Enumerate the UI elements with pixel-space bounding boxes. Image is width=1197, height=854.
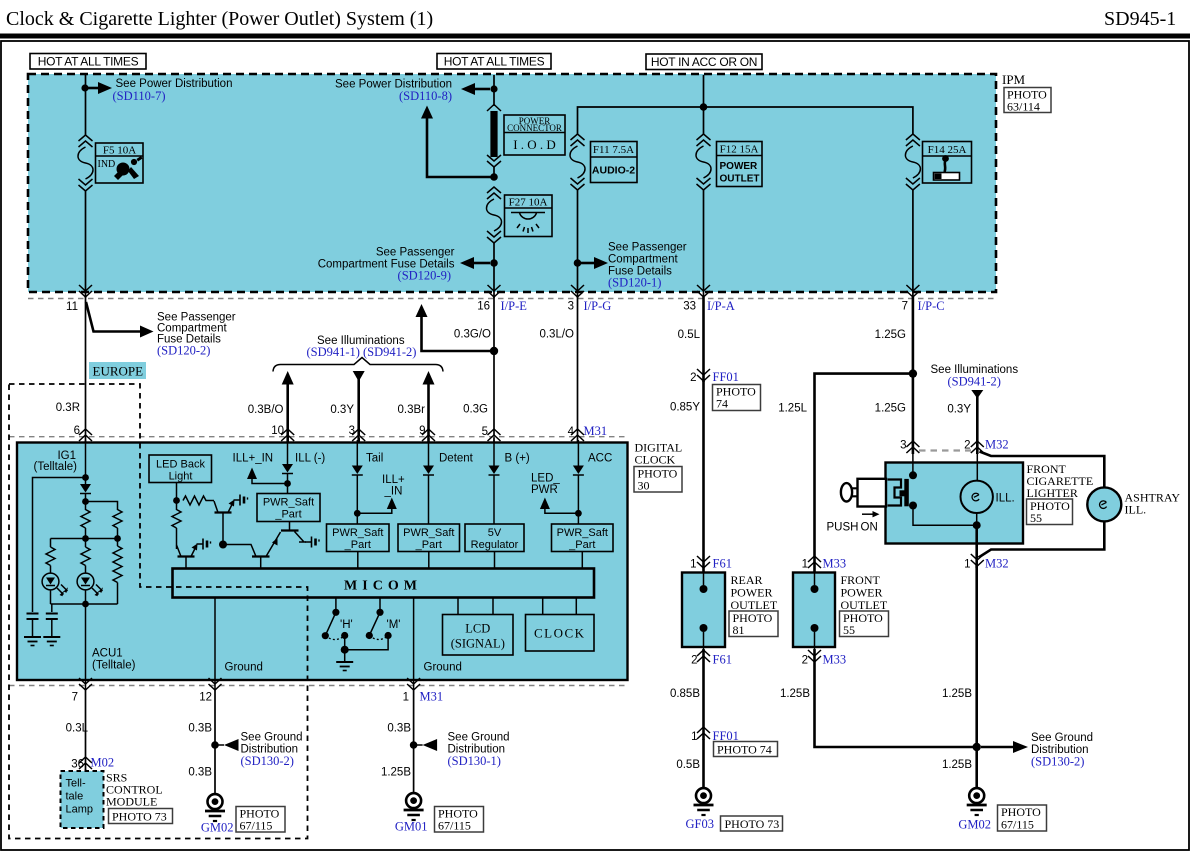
fuse F27 [487, 187, 502, 243]
node + arrow See Passenger Compartment Fuse Details (SD120-1) [574, 259, 582, 267]
node joining Q1 collector [219, 541, 227, 549]
PWR_Saft_Part box D [552, 524, 614, 552]
LED Back Light box [149, 455, 212, 483]
svg-text:(Telltale): (Telltale) [92, 660, 136, 672]
connector exit chevron pin 33 [697, 285, 710, 297]
svg-text:3: 3 [900, 440, 906, 452]
node [82, 474, 89, 481]
wire [85, 494, 87, 511]
svg-text:'M': 'M' [387, 619, 401, 631]
svg-text:1.25L: 1.25L [778, 403, 807, 415]
svg-text:Clock & Cigarette Lighter (Pow: Clock & Cigarette Lighter (Power Outlet)… [6, 8, 433, 30]
svg-text:(SD130-2): (SD130-2) [1031, 755, 1084, 769]
svg-text:_IN: _IN [384, 486, 403, 498]
capacitor key at Q1 [234, 495, 248, 506]
switch ground symbol [336, 662, 353, 671]
svg-text:67/115: 67/115 [1001, 818, 1034, 832]
node + branch up arrow LED_PWR [575, 510, 582, 517]
wire lamp to node and out of box [976, 513, 978, 525]
svg-text:0.3B: 0.3B [188, 723, 212, 735]
wire A top segment [85, 75, 87, 136]
svg-text:SD945-1: SD945-1 [1104, 8, 1176, 30]
exit chevron pin 7 [79, 678, 92, 690]
switch H [322, 598, 353, 651]
svg-text:Detent: Detent [439, 453, 474, 465]
transistor Q2 [177, 544, 198, 570]
ground symbol GM02 [967, 788, 987, 815]
svg-text:0.3L/O: 0.3L/O [539, 329, 574, 341]
svg-text:HOT AT ALL TIMES: HOT AT ALL TIMES [38, 55, 139, 69]
svg-text:_Part: _Part [415, 539, 442, 551]
fuse F14 [905, 134, 920, 190]
fuse F11 [570, 134, 585, 190]
LED left [42, 566, 68, 605]
svg-text:M02: M02 [91, 756, 115, 770]
svg-text:FF01: FF01 [713, 370, 739, 384]
node on wire B [490, 85, 497, 92]
wires into box [913, 450, 977, 481]
photo box 67/115 [236, 807, 285, 833]
svg-text:See Passenger: See Passenger [376, 247, 455, 259]
svg-text:B (+): B (+) [505, 453, 530, 465]
svg-text:74: 74 [716, 397, 728, 411]
connector exit chevron pin 11 [79, 285, 92, 297]
svg-text:LCD: LCD [465, 622, 490, 636]
svg-text:33: 33 [683, 301, 696, 313]
svg-text:0.3L: 0.3L [66, 723, 89, 735]
header label HOT AT ALL TIMES (left) [30, 54, 146, 70]
svg-text:IND: IND [98, 159, 116, 170]
svg-text:HOT AT ALL TIMES: HOT AT ALL TIMES [444, 55, 545, 69]
svg-text:M32: M32 [985, 438, 1009, 452]
photo box 81 [729, 611, 778, 637]
arrow to See Power Distribution (SD110-8) [475, 88, 490, 91]
svg-text:81: 81 [733, 623, 745, 637]
fuse F5 [78, 135, 93, 191]
cigarette icon in F14 [934, 155, 960, 180]
svg-text:0.3Br: 0.3Br [398, 404, 426, 416]
wire into telltale lamp [85, 769, 87, 772]
photo box 73 [721, 816, 783, 831]
svg-text:(SD941-2): (SD941-2) [948, 375, 1001, 389]
FRONT POWER OUTLET box [793, 568, 835, 650]
svg-text:(SD120-9): (SD120-9) [398, 269, 451, 283]
wire 0.3B [413, 690, 415, 794]
capacitor key at Q4 [305, 537, 319, 548]
arrow to See Ground Distribution (SD130-2) [981, 746, 1013, 749]
svg-text:1.25B: 1.25B [942, 688, 972, 700]
socket profile [888, 480, 902, 506]
connector chevron 2 M33 (bottom) [808, 650, 821, 662]
photo box 67/115 [998, 805, 1047, 832]
svg-text:63/114: 63/114 [1007, 100, 1040, 114]
svg-text:11: 11 [66, 301, 78, 313]
module box [17, 443, 628, 681]
photo box 55 [840, 611, 889, 637]
ground symbol GM02 [205, 794, 225, 821]
wire 0.5B [702, 739, 705, 789]
branch left with up arrow [422, 316, 495, 351]
wires to 538 junctions [86, 528, 118, 547]
svg-text:F61: F61 [713, 653, 732, 667]
vertical resistor under node [172, 510, 181, 529]
photo box 67/115 [435, 807, 484, 833]
wire 0.3B [214, 690, 216, 795]
svg-text:55: 55 [1030, 511, 1042, 525]
exit chevron pin 1 M31 [407, 678, 420, 690]
IPM dashed box [28, 74, 996, 292]
heater contact [900, 490, 905, 496]
svg-text:LED_: LED_ [531, 473, 560, 485]
svg-text:I . O . D: I . O . D [513, 137, 556, 152]
wire to pin 3 with down arrow (incoming) [357, 379, 360, 443]
brace [273, 358, 443, 372]
wire B below IPM to module pin 5 [493, 297, 495, 443]
airbag icon in F5 [114, 156, 143, 180]
svg-text:7: 7 [72, 692, 78, 704]
node [173, 497, 180, 504]
wire 0.85B [702, 649, 705, 740]
branch arrow to See Passenger Compartment Fuse Details (SD120-2) [86, 302, 140, 332]
ILL(-) wire + diode [287, 440, 289, 464]
transistor Q3 [252, 532, 281, 569]
horizontal link at 538 [51, 539, 118, 548]
Tail wire + diode [356, 440, 358, 466]
svg-text:PWR: PWR [531, 484, 558, 496]
horizontal resistor [183, 496, 214, 505]
svg-text:Tail: Tail [366, 453, 383, 465]
svg-text:PHOTO 73: PHOTO 73 [112, 810, 167, 824]
ashtray illumination lamp [1087, 487, 1121, 521]
svg-text:_Part: _Part [344, 539, 371, 551]
svg-text:0.5L: 0.5L [678, 329, 701, 341]
PWR_Saft_Part box (row 1) [257, 494, 320, 522]
fuse F14 label box cigarette [923, 142, 972, 184]
svg-text:HOT IN ACC OR ON: HOT IN ACC OR ON [651, 55, 757, 69]
grey dashed connector link [919, 449, 971, 451]
node + arrow See Passenger Compartment Fuse Details (SD120-9) [490, 259, 498, 267]
wire 1.25G upper [912, 297, 915, 454]
long resistor right chain [113, 546, 122, 583]
capacitor + ground 1 [27, 614, 39, 638]
svg-text:0.3G: 0.3G [463, 404, 488, 416]
wire A below IPM down to module pin 6 [85, 297, 87, 443]
svg-text:GM02: GM02 [958, 818, 991, 832]
ground symbol GF03 [694, 788, 714, 815]
wire down to pin 7 [85, 604, 87, 690]
switch common node [341, 646, 349, 654]
feeder wire from ACC line [578, 107, 913, 135]
svg-text:See Ground: See Ground [448, 732, 510, 744]
photo box 73 [109, 809, 173, 824]
svg-text:0.3B: 0.3B [387, 723, 411, 735]
svg-text:_Part: _Part [568, 539, 595, 551]
node + branch up arrow ILL+ _IN [354, 510, 361, 517]
svg-text:GM02: GM02 [201, 821, 234, 835]
photo box 74 [713, 385, 761, 411]
svg-text:0.3B/O: 0.3B/O [248, 404, 284, 416]
moving contact bar [904, 479, 909, 506]
node under IOD [490, 173, 498, 181]
svg-text:Light: Light [169, 471, 193, 483]
wire to Q2 [176, 528, 178, 549]
svg-text:5V: 5V [488, 527, 502, 539]
svg-text:(SD120-2): (SD120-2) [157, 344, 210, 358]
lamp icon in F27 [511, 213, 545, 234]
connector exit chevron pin 16 [488, 285, 501, 297]
fuse F11 label box AUDIO-2 [591, 142, 638, 183]
fuse F12 label box POWER OUTLET [717, 142, 763, 187]
svg-text:0.85B: 0.85B [670, 688, 700, 700]
svg-text:PWR_Saft: PWR_Saft [263, 497, 314, 509]
wire D lower segment [703, 190, 705, 298]
transistor Q1 [214, 500, 235, 546]
svg-text:1.25G: 1.25G [875, 403, 906, 415]
svg-text:OUTLET: OUTLET [720, 174, 760, 185]
svg-text:Ground: Ground [225, 662, 263, 674]
arrow marker to See Ground Distribution (SD130-2) [215, 744, 224, 746]
svg-text:M33: M33 [823, 557, 847, 571]
wire 1.25B from lighter [975, 564, 978, 789]
svg-text:6: 6 [74, 425, 80, 437]
transistor Q4 under PWR_Saft [281, 522, 306, 543]
svg-text:ILL.: ILL. [996, 493, 1015, 505]
svg-text:ON: ON [861, 522, 878, 534]
svg-text:F61: F61 [713, 557, 732, 571]
svg-text:16: 16 [477, 301, 490, 313]
fuse F12 [696, 134, 711, 190]
wire C below IPM to module pin 4 [577, 297, 579, 443]
connector chevron 1 F61 [697, 556, 710, 568]
svg-text:(SD130-2): (SD130-2) [241, 754, 294, 768]
Detent wire + diode [428, 440, 430, 466]
svg-text:0.5B: 0.5B [676, 759, 700, 771]
svg-text:2: 2 [690, 372, 696, 384]
LED mid [77, 566, 103, 605]
wire 1.25B to junction [815, 649, 977, 747]
connector chevron 36 M02 [79, 757, 92, 769]
svg-text:1.25B: 1.25B [780, 688, 810, 700]
push on arrow [862, 513, 873, 515]
wire to switch ground [344, 650, 346, 662]
push button knob [841, 479, 886, 507]
svg-text:Ground: Ground [424, 662, 462, 674]
PWR_Saft_Part box A [327, 524, 390, 552]
svg-text:I/P-E: I/P-E [501, 299, 528, 313]
MICOM box [173, 569, 595, 598]
svg-text:MICOM: MICOM [344, 579, 422, 594]
svg-text:M31: M31 [584, 424, 608, 438]
svg-text:M31: M31 [420, 690, 444, 704]
svg-text:(SD941-1): (SD941-1) [307, 345, 360, 359]
svg-text:1: 1 [964, 559, 970, 571]
svg-text:2: 2 [691, 655, 697, 667]
svg-text:GM01: GM01 [395, 820, 428, 834]
connector chevron 2 M32 [971, 441, 984, 453]
svg-text:ILL+: ILL+ [382, 474, 405, 486]
PWR_Saft_Part box B [398, 524, 460, 552]
link to transistor Q3 [223, 545, 256, 557]
grey connector dashed line at module bottom [9, 685, 628, 687]
photo box 30 [634, 467, 682, 493]
svg-text:30: 30 [638, 479, 650, 493]
svg-text:'H': 'H' [340, 619, 353, 631]
svg-text:OUTLET: OUTLET [841, 598, 888, 612]
svg-text:Compartment: Compartment [608, 254, 678, 266]
wire 0.3L [85, 690, 87, 771]
wire 0.85Y [702, 381, 705, 572]
svg-text:3: 3 [349, 425, 355, 437]
svg-text:MODULE: MODULE [106, 795, 157, 809]
svg-text:7: 7 [902, 301, 908, 313]
grey connector dashed line under IPM [28, 298, 996, 300]
wire E lower segment [912, 190, 914, 298]
node on wire B below [490, 347, 498, 355]
node [82, 601, 89, 608]
wire from box [176, 483, 178, 511]
svg-text:1.25B: 1.25B [942, 759, 972, 771]
wire from bottom contact to lamp leg [913, 506, 973, 526]
svg-text:F5 10A: F5 10A [103, 145, 136, 157]
svg-text:F11 7.5A: F11 7.5A [593, 144, 634, 156]
svg-text:1.25B: 1.25B [381, 767, 411, 779]
node on wire A [81, 84, 88, 91]
svg-text:PHOTO 74: PHOTO 74 [717, 743, 772, 757]
wire to pin 10 with up arrow [286, 383, 289, 443]
POWER CONNECTOR I.O.D label box [504, 115, 565, 155]
svg-text:(SIGNAL): (SIGNAL) [451, 637, 505, 651]
svg-text:3: 3 [568, 301, 574, 313]
connector exit chevron pin 7 [906, 285, 919, 297]
LCD (SIGNAL) box [443, 598, 514, 656]
branch to capacitor leg [33, 478, 86, 613]
svg-text:I/P-C: I/P-C [918, 299, 945, 313]
power connector I.O.D symbol [487, 105, 501, 178]
connector exit chevron pin 3 [571, 285, 584, 297]
node [284, 480, 291, 487]
resistor R left [46, 547, 55, 566]
branch right to third chain [86, 502, 118, 511]
svg-text:1: 1 [690, 559, 696, 571]
wire A lower segment [85, 191, 87, 298]
svg-text:CLOCK: CLOCK [635, 453, 676, 467]
svg-text:(SD110-8): (SD110-8) [399, 89, 452, 103]
branch left with up arrow (to SD110-8) [427, 117, 494, 177]
ashtray wiring loop [979, 452, 1105, 558]
ground wire (pin 1 M31) [413, 598, 415, 691]
node [410, 741, 418, 749]
wire B lower segment [493, 243, 495, 298]
svg-text:IPM: IPM [1002, 72, 1026, 87]
Tell-tale Lamp dashed box [61, 771, 104, 828]
branch to front power outlet [815, 374, 913, 572]
svg-text:See Passenger: See Passenger [608, 242, 687, 254]
svg-text:1: 1 [691, 731, 697, 743]
svg-text:OUTLET: OUTLET [731, 598, 778, 612]
svg-text:0.85Y: 0.85Y [670, 402, 700, 414]
photo box 55 [1027, 499, 1073, 525]
svg-text:Lamp: Lamp [66, 804, 94, 816]
wire C lower segment [577, 190, 579, 298]
node on feeder [700, 103, 708, 111]
contact nodes [909, 471, 917, 479]
svg-text:GF03: GF03 [686, 817, 714, 831]
connector chevron 3 (M32) [906, 441, 919, 453]
node [82, 498, 89, 505]
resistor R mid-2 [81, 547, 90, 566]
diode on IG1 wire [80, 484, 91, 494]
fuse F5 label box [96, 143, 144, 183]
svg-text:PUSH: PUSH [827, 522, 859, 534]
svg-text:1.25G: 1.25G [875, 329, 906, 341]
svg-text:Tell-: Tell- [66, 778, 87, 790]
svg-text:tale: tale [66, 791, 84, 803]
svg-text:CONNECTOR: CONNECTOR [507, 123, 562, 133]
0.3Y wire with down arrow [971, 390, 983, 399]
junction node [973, 743, 981, 751]
svg-text:LED Back: LED Back [156, 459, 205, 471]
svg-text:F27 10A: F27 10A [509, 197, 548, 209]
svg-text:ILL+_IN: ILL+_IN [233, 453, 274, 465]
svg-text:See Ground: See Ground [1031, 732, 1093, 744]
node [211, 741, 219, 749]
fuse F27 label box [505, 195, 553, 237]
svg-text:55: 55 [843, 623, 855, 637]
header label HOT AT ALL TIMES (center) [437, 54, 551, 70]
svg-text:EUROPE: EUROPE [93, 364, 144, 379]
wire IG1 vertical [85, 440, 87, 484]
branch with up arrow to ILL+_IN [252, 478, 288, 484]
wire 0.5L [702, 297, 705, 382]
svg-text:PWR_Saft: PWR_Saft [557, 527, 608, 539]
svg-text:M33: M33 [823, 653, 847, 667]
svg-text:1: 1 [403, 692, 409, 704]
connector chevron 2 F61 (bottom) [697, 650, 710, 662]
svg-text:67/115: 67/115 [438, 819, 471, 833]
lamp bottom node [973, 521, 981, 529]
svg-text:M32: M32 [985, 557, 1009, 571]
svg-text:0.3Y: 0.3Y [947, 404, 971, 416]
bottom link of telltale network [51, 583, 118, 605]
exit chevron pin 12 [209, 678, 222, 690]
module entry chevrons pins 6,10,3,9,5,4 [79, 429, 92, 441]
svg-text:AUDIO-2: AUDIO-2 [592, 165, 635, 177]
ground symbol GM01 [404, 793, 424, 820]
svg-text:36: 36 [71, 759, 84, 771]
wire to pin 9 with up arrow [427, 383, 430, 443]
thick rule under title [0, 34, 1190, 39]
svg-text:PHOTO 73: PHOTO 73 [725, 817, 780, 831]
svg-text:_Part: _Part [274, 509, 301, 521]
svg-text:ILL.: ILL. [1125, 503, 1147, 517]
svg-text:0.3R: 0.3R [56, 402, 80, 414]
switch M [345, 598, 401, 650]
svg-text:(SD941-2): (SD941-2) [363, 345, 416, 359]
connector chevron 1 M33 [808, 556, 821, 568]
ground wire (pin 12) [214, 598, 216, 691]
connector chevron 1 FF01 (bottom) [697, 727, 710, 739]
svg-text:ACU1: ACU1 [92, 648, 123, 660]
svg-text:0.3Y: 0.3Y [330, 404, 354, 416]
capacitor + ground 2 [46, 604, 58, 637]
svg-text:(SD130-1): (SD130-1) [448, 754, 501, 768]
resistor R mid-1 [81, 510, 90, 529]
svg-text:67/115: 67/115 [240, 819, 273, 833]
svg-text:(SD120-1): (SD120-1) [608, 276, 661, 290]
svg-text:(SD110-7): (SD110-7) [113, 89, 166, 103]
svg-text:I/P-A: I/P-A [707, 299, 735, 313]
svg-text:CLOCK: CLOCK [534, 626, 586, 641]
